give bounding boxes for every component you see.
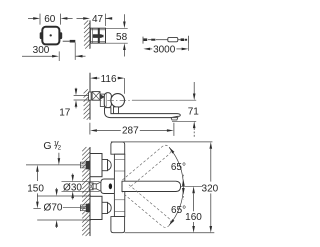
dim Ø30 (sensor window) (62, 174, 100, 200)
centerline at spout tip (top view) (181, 185, 203, 187)
dim 150 (inlet spacing) (27, 165, 44, 209)
svg-text:Ø30: Ø30 (63, 182, 82, 193)
swivel arc with arrowheads (169, 147, 185, 225)
faucet body column (swivel view) (111, 142, 125, 233)
dim 60 (power box width) (28, 14, 73, 25)
aerator outlet (side view) (171, 118, 178, 121)
svg-text:320: 320 (202, 184, 219, 195)
swivelled spout position -65 (dashed) (122, 185, 172, 229)
wall union flange (side view) (89, 92, 92, 100)
svg-text:65°: 65° (171, 162, 186, 173)
label G 1/2 (thread size) (43, 140, 61, 152)
top supply union with escutcheon (front view) (80, 154, 111, 177)
dim 116 (body projection) (90, 74, 124, 94)
dim 300 (box cable length) (22, 43, 86, 62)
S-union with cross symbol (92, 92, 100, 101)
power box (side view, wall mounted) (90, 28, 105, 43)
svg-text:G: G (43, 140, 51, 152)
svg-text:2: 2 (58, 145, 62, 152)
dim 58 (box height) (106, 14, 128, 56)
svg-text:71: 71 (188, 106, 200, 117)
wall with hatching (front/bottom view) (82, 147, 90, 236)
dim 287 (spout length) (90, 123, 174, 137)
dim 320 (full swivel width) (111, 142, 219, 233)
svg-text:116: 116 (101, 74, 117, 85)
cable from control box with connector (63, 40, 76, 43)
leader for G 1/2 (26, 153, 80, 165)
dim 71 (spout height over center) (172, 82, 199, 137)
bottom supply union with escutcheon (front view) (80, 196, 111, 219)
svg-text:60: 60 (44, 14, 56, 25)
svg-text:3000: 3000 (153, 45, 176, 56)
svg-text:160: 160 (185, 212, 202, 223)
svg-text:65°: 65° (171, 205, 186, 216)
svg-text:150: 150 (27, 183, 44, 194)
dim 17 (inlet offset) (59, 88, 90, 119)
centerline through body (95, 99, 132, 101)
dim 3000 (sensor cable length) (143, 44, 188, 56)
body pillar (side view) (104, 93, 111, 108)
svg-text:300: 300 (33, 45, 50, 56)
svg-text:17: 17 (59, 107, 71, 118)
dim Ø70 (escutcheon) (37, 188, 91, 228)
power supply control box (front view) (40, 27, 63, 45)
svg-text:Ø70: Ø70 (44, 203, 63, 214)
body neck (side view) (100, 94, 104, 106)
svg-text:287: 287 (122, 126, 139, 137)
spout (top/swivel view) (122, 181, 181, 191)
thermostat body circle (side view) (111, 94, 125, 108)
swivelled spout position +65 (dashed) (122, 143, 172, 187)
sensor cable with inline connectors (3000 mm) (143, 36, 189, 44)
dim 160 (half swivel width) (185, 186, 202, 233)
svg-text:58: 58 (116, 32, 128, 43)
wall with hatching (faucet side view) (84, 73, 90, 120)
dim 47 (box depth) (77, 14, 113, 26)
svg-text:47: 47 (92, 14, 104, 25)
wall hatching (power box side view) (84, 20, 90, 48)
infrared sensor with dome (front view) (89, 179, 118, 194)
spout (side view) (105, 107, 181, 118)
